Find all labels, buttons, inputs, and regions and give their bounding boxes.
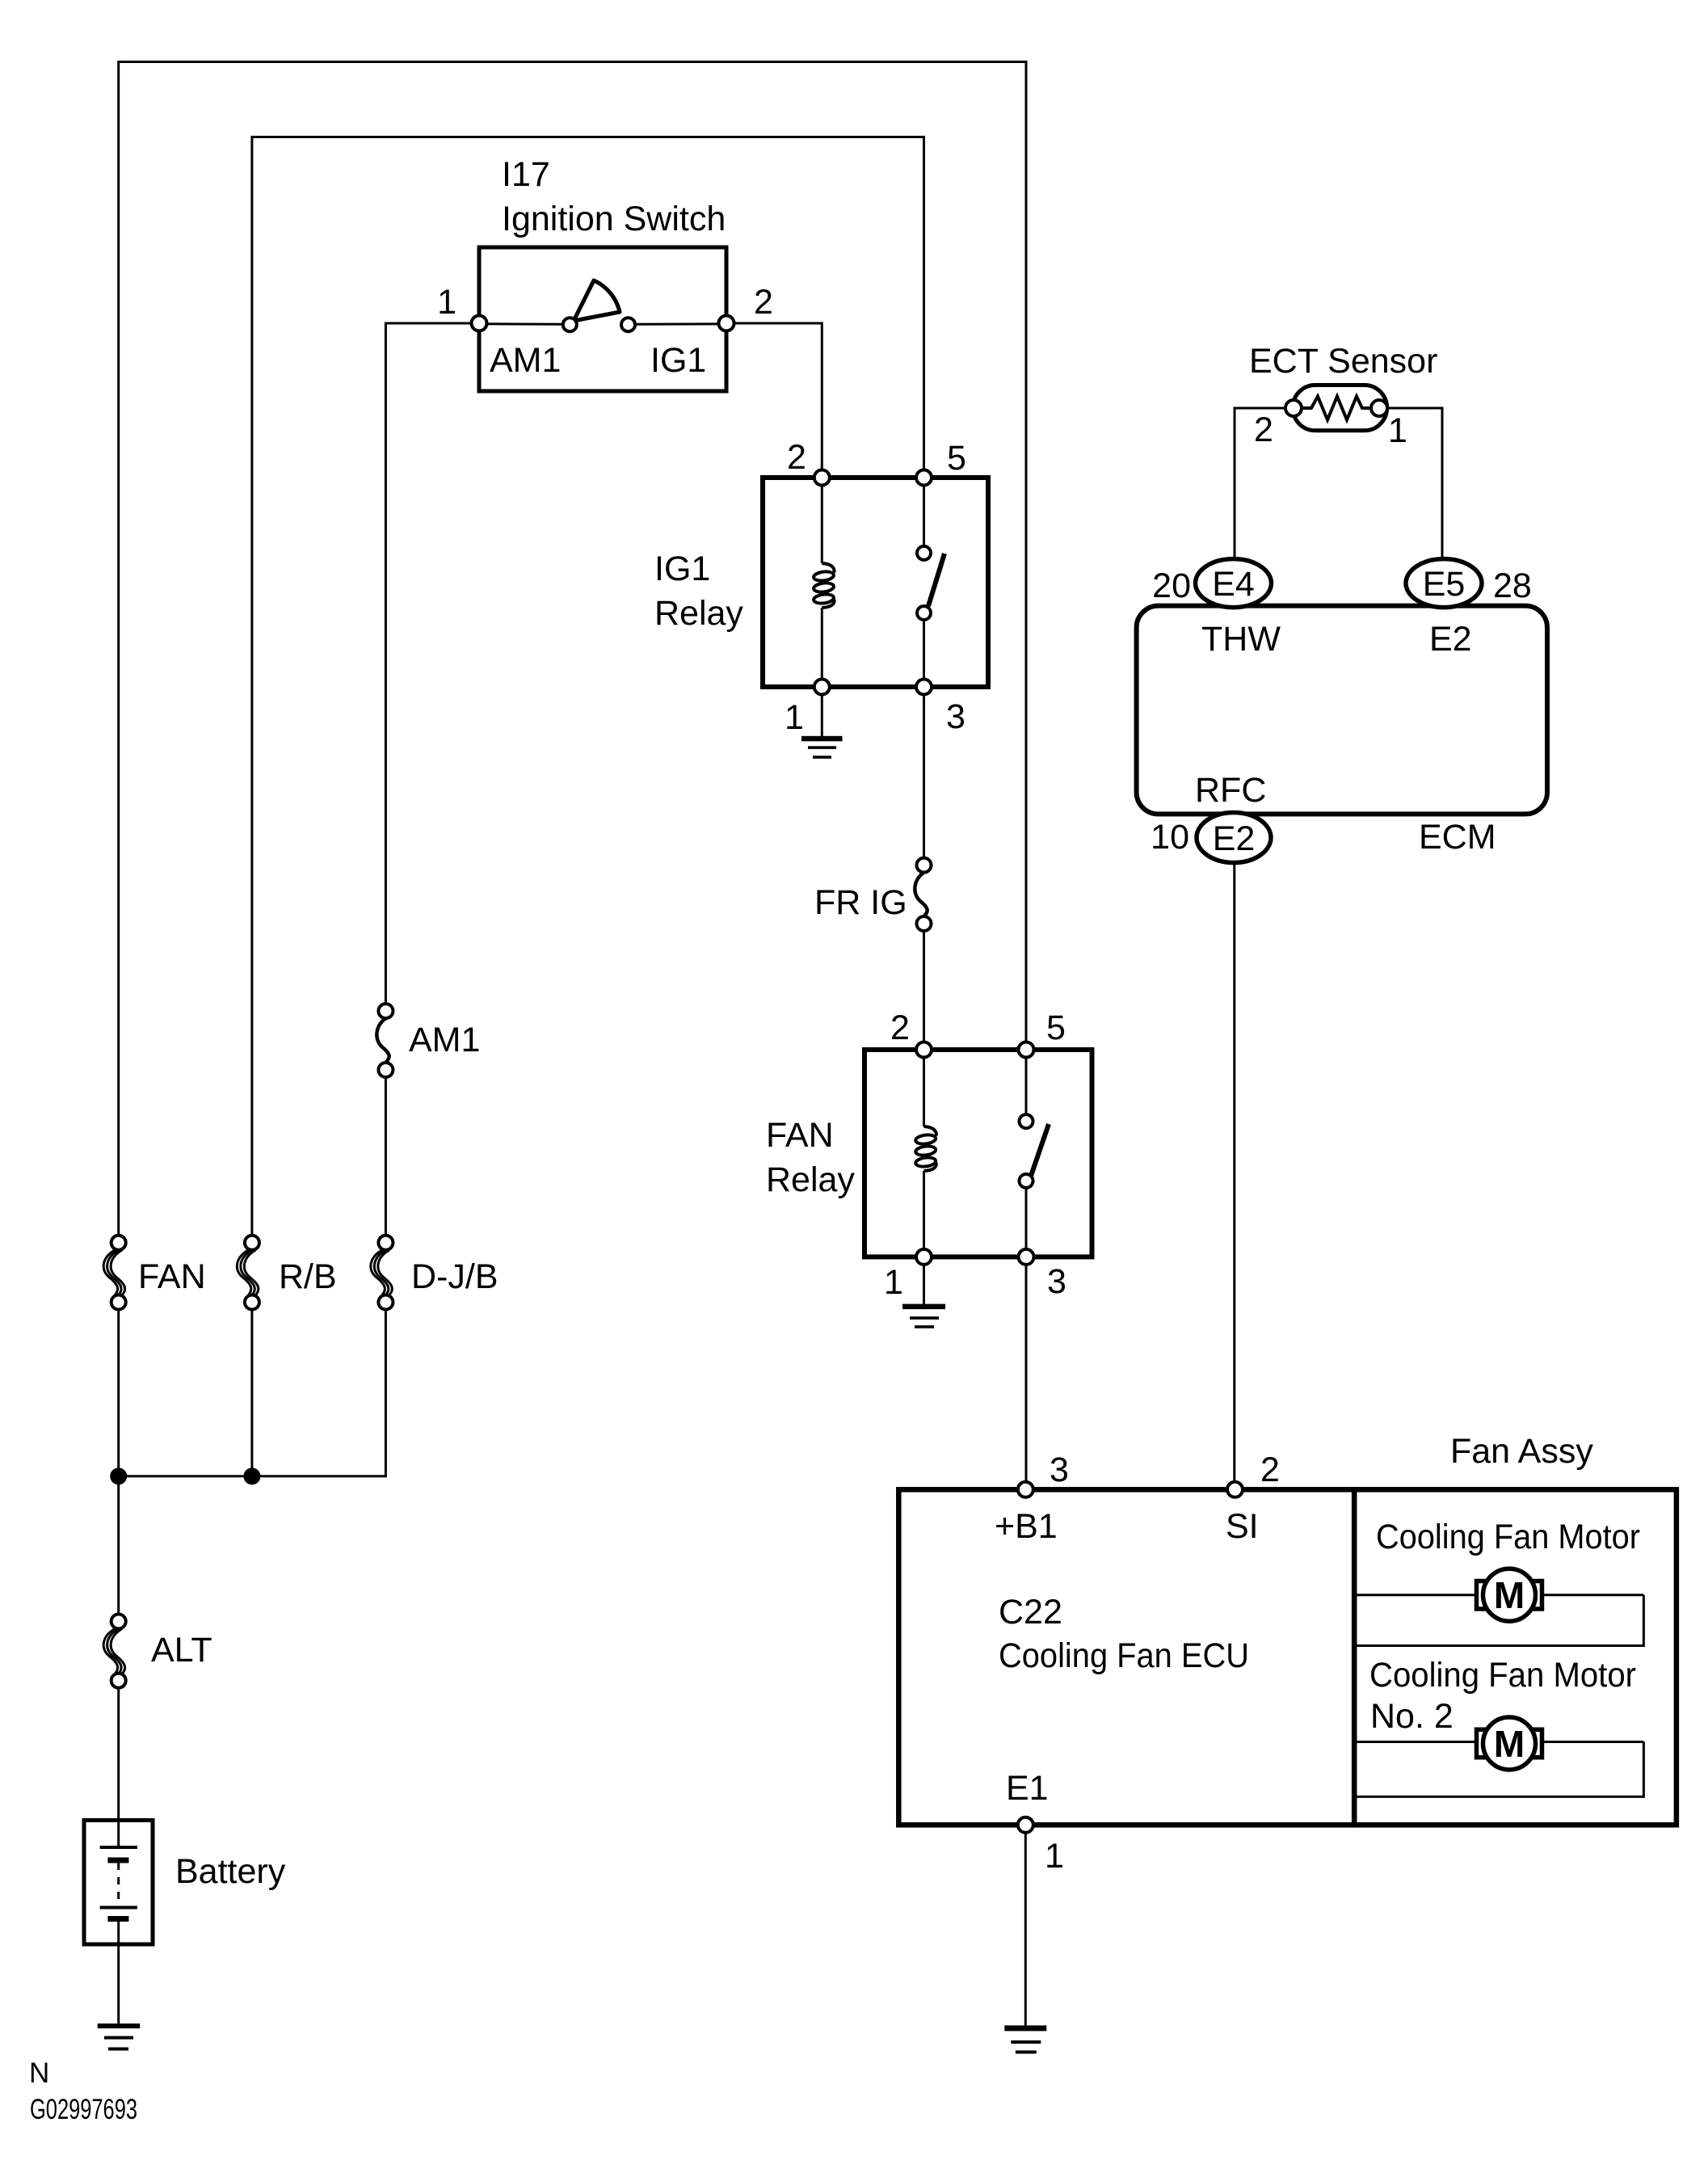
- FAN relay pin 2: [916, 1042, 932, 1058]
- svg-text:3: 3: [946, 697, 965, 736]
- ECT sensor resistor: [1303, 397, 1369, 420]
- IG1 relay coil wire top: [821, 478, 823, 563]
- svg-text:E2: E2: [1429, 620, 1472, 659]
- ECU pin E1: [1018, 1817, 1033, 1833]
- battery internal symbol: [100, 1821, 137, 1945]
- ground battery: [98, 2023, 141, 2050]
- svg-text:+B1: +B1: [995, 1507, 1058, 1546]
- wire second branch: from R/B fuse up, across, down to IG1 relay pin 5: [252, 137, 924, 1236]
- FAN relay coil wire bottom: [923, 1171, 925, 1257]
- svg-text:Relay: Relay: [654, 594, 743, 633]
- motor 2 loop wires: [1357, 1742, 1643, 1797]
- ignition switch I17 box: [479, 247, 726, 391]
- wire FR IG fuse to FAN relay pin2: [923, 931, 925, 1050]
- svg-text:3: 3: [1047, 1262, 1066, 1301]
- FAN relay switch contact bottom: [1020, 1174, 1033, 1188]
- IG1 relay switch blade: [928, 554, 944, 606]
- fuse FAN: [111, 1236, 126, 1250]
- svg-text:RFC: RFC: [1195, 771, 1266, 810]
- svg-text:Fan Assy: Fan Assy: [1450, 1432, 1593, 1471]
- fuse R/B: [245, 1236, 259, 1250]
- IG1 relay pin 5: [916, 470, 932, 486]
- wire ECU pin E1 to ground: [1024, 1825, 1027, 2025]
- IG1 relay box: [763, 478, 988, 687]
- IG1 relay switch contact bottom: [917, 606, 931, 620]
- ground FAN relay: [902, 1304, 945, 1329]
- svg-text:E4: E4: [1212, 565, 1255, 604]
- fuse D-J/B: [378, 1236, 393, 1250]
- svg-text:IG1: IG1: [650, 341, 706, 380]
- motor 1 loop wires: [1357, 1595, 1643, 1646]
- svg-text:20: 20: [1152, 566, 1191, 605]
- IG1 relay pin 2: [814, 470, 830, 486]
- wire AM1 fuse to D-J/B fuse: [385, 1077, 387, 1236]
- wire IG1 relay pin1 to ground: [821, 687, 823, 737]
- svg-text:AM1: AM1: [409, 1021, 480, 1059]
- svg-text:2: 2: [1260, 1451, 1280, 1489]
- fuse FR IG: [917, 858, 932, 873]
- ECM connector E4: [1196, 559, 1272, 608]
- svg-text:FAN: FAN: [766, 1116, 834, 1155]
- junction dot B: [243, 1467, 260, 1484]
- ECU pin SI: [1227, 1482, 1243, 1497]
- battery box: [84, 1821, 153, 1945]
- svg-text:No. 2: No. 2: [1370, 1697, 1453, 1736]
- fan assy box: [1354, 1489, 1676, 1825]
- fuse AM1: [378, 1004, 393, 1018]
- motor 2: [1477, 1717, 1542, 1770]
- FAN relay coil: [915, 1126, 936, 1171]
- wire ignition switch pin1 to AM1 fuse: [385, 323, 472, 1004]
- wire IG1 relay pin3 to FR IG fuse: [923, 687, 925, 858]
- wire ECM E2 connector to ECU pin SI: [1233, 862, 1235, 1490]
- wire FAN relay pin1 to ground: [923, 1257, 925, 1305]
- FAN relay coil wire top: [923, 1050, 925, 1126]
- IG1 relay pin 1: [814, 680, 830, 695]
- svg-text:5: 5: [947, 439, 966, 478]
- IG1 relay switch wire top: [923, 478, 925, 546]
- IG1 relay coil wire bottom: [821, 608, 823, 687]
- svg-text:2: 2: [754, 283, 773, 322]
- svg-text:E2: E2: [1213, 819, 1256, 858]
- svg-text:Relay: Relay: [766, 1160, 855, 1199]
- motor 1: [1477, 1569, 1542, 1621]
- wire ECT sensor pin2 to ECM E4: [1235, 408, 1294, 559]
- svg-text:1: 1: [785, 698, 804, 737]
- svg-text:C22: C22: [999, 1593, 1062, 1632]
- wire ignition fixed contact to pin2: [635, 322, 726, 325]
- wire FAN relay pin3 to cooling fan ECU pin +B1: [1025, 1257, 1028, 1489]
- svg-text:ALT: ALT: [151, 1631, 212, 1670]
- cooling fan ECU box: [898, 1489, 1354, 1825]
- svg-text:Cooling Fan Motor: Cooling Fan Motor: [1376, 1518, 1640, 1556]
- svg-text:I17: I17: [502, 155, 550, 194]
- svg-text:3: 3: [1050, 1451, 1069, 1489]
- svg-text:FAN: FAN: [138, 1257, 206, 1296]
- svg-text:ECM: ECM: [1419, 818, 1496, 857]
- svg-text:D-J/B: D-J/B: [411, 1257, 499, 1296]
- ECT sensor terminal 2: [1285, 400, 1302, 416]
- FAN relay pin 3: [1019, 1249, 1034, 1265]
- svg-text:G02997693: G02997693: [30, 2094, 137, 2125]
- svg-text:28: 28: [1493, 566, 1532, 605]
- svg-text:Cooling Fan Motor: Cooling Fan Motor: [1369, 1656, 1636, 1695]
- svg-text:1: 1: [1045, 1837, 1064, 1876]
- svg-text:10: 10: [1151, 818, 1189, 857]
- svg-text:R/B: R/B: [279, 1257, 337, 1296]
- wire ALT fuse to battery: [117, 1688, 120, 1821]
- svg-text:Ignition Switch: Ignition Switch: [502, 200, 726, 238]
- ECT sensor body: [1293, 385, 1387, 431]
- ECM box: [1137, 606, 1547, 815]
- svg-text:2: 2: [890, 1008, 910, 1047]
- ignition switch lever: [574, 280, 620, 321]
- ignition switch terminal 1: [472, 316, 487, 331]
- svg-text:2: 2: [787, 438, 806, 477]
- svg-text:1: 1: [884, 1263, 903, 1302]
- svg-text:M: M: [1494, 1723, 1525, 1765]
- wire D-J/B fuse down and left along junction row: [119, 1310, 386, 1476]
- FAN relay switch contact top: [1020, 1114, 1033, 1128]
- FAN relay box: [865, 1050, 1092, 1257]
- svg-text:5: 5: [1046, 1008, 1066, 1047]
- ground ECU E1: [1004, 2025, 1046, 2053]
- fuse ALT: [111, 1615, 126, 1629]
- wire ignition pin1 to pivot contact: [479, 322, 563, 325]
- svg-text:FR IG: FR IG: [814, 883, 907, 922]
- ECM connector E5: [1406, 559, 1482, 608]
- svg-text:1: 1: [1388, 411, 1407, 450]
- ground IG1 relay: [801, 736, 843, 759]
- wire FAN fuse to junction A: [117, 1310, 120, 1476]
- svg-text:E1: E1: [1006, 1769, 1049, 1808]
- ignition switch fixed contact: [621, 318, 635, 331]
- wire battery to ground: [117, 1944, 120, 2025]
- wire junction A to ALT fuse: [117, 1476, 120, 1615]
- IG1 relay switch contact top: [917, 546, 931, 560]
- IG1 relay coil: [813, 563, 834, 608]
- IG1 relay pin 3: [916, 680, 932, 695]
- wire battery branch: left outer wire from FAN fuse up, across top, down to FAN relay pin 5: [119, 62, 1026, 1236]
- ECU pin +B1: [1018, 1482, 1033, 1497]
- svg-text:1: 1: [437, 283, 456, 322]
- svg-text:Cooling Fan ECU: Cooling Fan ECU: [999, 1636, 1249, 1675]
- FAN relay pin 1: [916, 1249, 932, 1265]
- FAN relay switch wire top: [1025, 1050, 1028, 1114]
- svg-text:SI: SI: [1226, 1507, 1259, 1546]
- ignition switch terminal 2: [719, 316, 734, 331]
- svg-text:Battery: Battery: [175, 1852, 286, 1891]
- svg-text:E5: E5: [1423, 565, 1466, 604]
- svg-text:M: M: [1494, 1574, 1525, 1616]
- svg-text:2: 2: [1254, 411, 1273, 449]
- svg-text:N: N: [29, 2057, 49, 2089]
- ignition switch pivot contact: [563, 318, 577, 331]
- ECT sensor terminal 1: [1371, 400, 1387, 416]
- FAN relay switch blade: [1030, 1124, 1049, 1178]
- wire ECT sensor pin1 to ECM E5: [1379, 408, 1442, 559]
- svg-text:IG1: IG1: [654, 550, 710, 588]
- FAN relay pin 5: [1019, 1042, 1034, 1058]
- svg-text:ECT Sensor: ECT Sensor: [1249, 342, 1437, 381]
- wire R/B fuse to junction B: [250, 1310, 253, 1476]
- IG1 relay switch wire bottom: [923, 620, 925, 687]
- junction dot A: [110, 1467, 127, 1484]
- svg-text:AM1: AM1: [490, 341, 561, 380]
- wire ignition switch pin2 to IG1 relay pin2: [734, 323, 822, 470]
- svg-text:THW: THW: [1201, 620, 1281, 659]
- FAN relay switch wire bottom: [1025, 1188, 1028, 1257]
- ECM connector E2 bottom: [1197, 813, 1271, 863]
